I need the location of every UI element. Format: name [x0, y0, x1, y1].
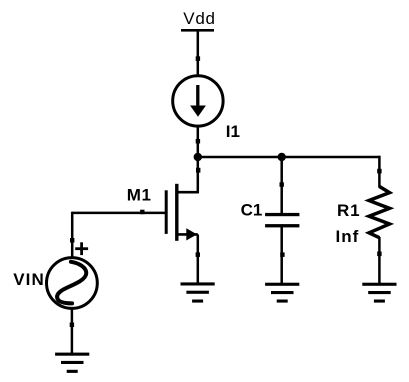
wire I1 to node — [197, 126, 200, 157]
wire VIN to ground — [71, 309, 74, 354]
wire R1 to ground — [378, 237, 381, 285]
pin marker on VIN top wire — [70, 238, 74, 243]
voltage source VIN — [47, 258, 98, 309]
ground R1 — [362, 283, 396, 303]
svg-text:Vdd: Vdd — [183, 9, 215, 28]
pin marker on C1 bottom wire — [280, 252, 284, 257]
current source I1 — [173, 76, 223, 126]
wire Vdd to I1 — [197, 31, 200, 76]
wire top rail — [198, 156, 380, 159]
node dot drain — [194, 153, 202, 161]
pin marker on gate wire — [140, 210, 144, 215]
pin marker on R1 bottom wire — [377, 252, 381, 257]
wire gate corner down to VIN — [71, 212, 74, 257]
svg-text:C1: C1 — [241, 201, 263, 220]
wire top rail to R1 corner — [378, 156, 381, 188]
ground C1 — [265, 283, 299, 303]
capacitor C1 — [265, 213, 299, 228]
pin marker on VIN bottom wire — [70, 323, 74, 328]
power supply Vdd bar — [181, 29, 214, 32]
resistor R1 — [369, 187, 390, 238]
wire node to drain — [197, 157, 200, 193]
transistor M1 — [166, 184, 198, 241]
pin marker on drain wire — [196, 168, 200, 173]
pin marker on Vdd wire — [196, 56, 200, 61]
ground VIN — [55, 353, 89, 373]
wire M1 source to ground — [197, 234, 200, 284]
svg-text:R1: R1 — [337, 201, 360, 220]
plus sign — [75, 242, 88, 255]
pin marker on R1 top wire — [377, 169, 381, 174]
pin marker on C1 top wire — [280, 182, 284, 187]
svg-text:Inf: Inf — [336, 227, 360, 246]
node dot C1 tap — [278, 153, 286, 161]
pin marker on I1 bottom wire — [196, 139, 200, 144]
pin marker on source wire — [196, 252, 200, 257]
wire gate horizontal — [72, 212, 166, 215]
wire node to C1 — [280, 157, 283, 213]
wire C1 to ground — [280, 227, 283, 285]
ground M1 source — [181, 282, 215, 302]
svg-text:VIN: VIN — [13, 270, 45, 289]
svg-text:I1: I1 — [226, 122, 240, 141]
svg-text:M1: M1 — [127, 186, 152, 205]
